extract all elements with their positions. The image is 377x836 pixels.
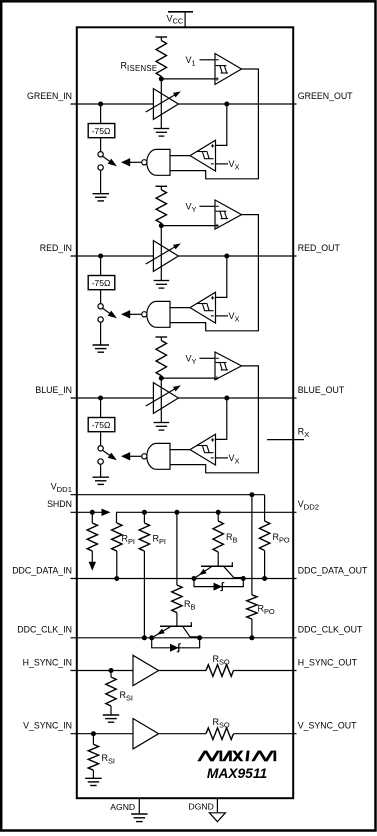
svg-text:V_SYNC_IN: V_SYNC_IN (23, 721, 72, 731)
svg-text:-75Ω: -75Ω (92, 126, 111, 136)
svg-text:-75Ω: -75Ω (92, 278, 111, 288)
svg-text:BLUE_IN: BLUE_IN (35, 385, 72, 395)
svg-text:-75Ω: -75Ω (92, 420, 111, 430)
svg-text:GREEN_IN: GREEN_IN (27, 91, 72, 101)
svg-text:DDC_DATA_IN: DDC_DATA_IN (12, 565, 72, 575)
svg-text:H_SYNC_IN: H_SYNC_IN (23, 657, 72, 667)
svg-text:DDC_CLK_OUT: DDC_CLK_OUT (298, 625, 363, 635)
svg-text:V_SYNC_OUT: V_SYNC_OUT (298, 721, 357, 731)
svg-text:RED_IN: RED_IN (40, 243, 72, 253)
svg-text:DGND: DGND (189, 802, 214, 812)
svg-text:BLUE_OUT: BLUE_OUT (298, 385, 345, 395)
svg-text:H_SYNC_OUT: H_SYNC_OUT (298, 657, 358, 667)
svg-text:DDC_CLK_IN: DDC_CLK_IN (17, 625, 72, 635)
svg-text:MAX9511: MAX9511 (207, 766, 267, 781)
svg-text:AGND: AGND (110, 802, 135, 812)
svg-text:RED_OUT: RED_OUT (298, 243, 341, 253)
svg-text:GREEN_OUT: GREEN_OUT (298, 91, 353, 101)
svg-text:SHDN: SHDN (47, 499, 72, 509)
svg-text:DDC_DATA_OUT: DDC_DATA_OUT (298, 565, 368, 575)
